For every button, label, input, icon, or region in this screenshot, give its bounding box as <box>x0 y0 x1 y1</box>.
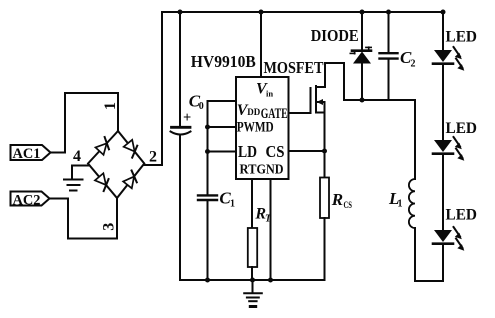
svg-text:1: 1 <box>230 199 235 210</box>
svg-text:AC2: AC2 <box>13 192 41 208</box>
svg-text:PWMD: PWMD <box>237 120 274 136</box>
VIN rail (top) <box>162 11 443 13</box>
MOSFET Q1 <box>264 58 326 151</box>
node dot rail/C0 <box>178 10 183 15</box>
ground bus (bottom) <box>180 279 325 281</box>
bridge diode D1 (left-top edge) <box>95 137 113 155</box>
wire Vin riser <box>260 12 262 77</box>
wire bridge pin 4 to ground <box>72 166 88 179</box>
svg-text:CS: CS <box>266 142 285 161</box>
svg-text:AC1: AC1 <box>13 146 41 162</box>
wire C1 branch vertical <box>207 101 209 195</box>
svg-text:RT: RT <box>240 163 258 178</box>
node dot CS/source/RCS <box>322 149 327 154</box>
svg-text:2: 2 <box>149 149 157 166</box>
svg-text:LED: LED <box>446 29 478 46</box>
node dot bus/RT <box>250 278 255 283</box>
svg-text:LED: LED <box>446 207 478 224</box>
capacitor C2 <box>380 12 416 100</box>
svg-text:GND: GND <box>257 163 284 178</box>
wire PWMD pin <box>208 126 237 128</box>
capacitor C1 <box>198 189 235 281</box>
svg-text:DD: DD <box>247 107 260 117</box>
gate bar <box>310 88 312 113</box>
svg-text:in: in <box>266 89 273 99</box>
bridge diode D3 (left-bottom edge) <box>95 173 113 191</box>
svg-text:LED: LED <box>446 120 478 137</box>
svg-text:+: + <box>183 110 191 126</box>
wire RT pin down <box>251 179 253 228</box>
node dot rail/Vin <box>259 10 264 15</box>
svg-text:MOSFET: MOSFET <box>264 58 325 77</box>
inductor L1 <box>388 100 415 281</box>
svg-text:LD: LD <box>238 142 257 161</box>
wire VDD pin to C1 branch <box>208 100 237 102</box>
drain stub <box>316 63 325 87</box>
channel bar <box>315 86 317 113</box>
node dot rail/LED <box>441 10 446 15</box>
LED 1 <box>433 29 477 71</box>
node dot bus/C1 <box>205 278 210 283</box>
wire drain to switch line <box>325 63 344 100</box>
freewheel diode D5 (schottky) <box>311 12 372 100</box>
node dot rail/D5 <box>360 10 365 15</box>
LED 3 <box>433 207 477 251</box>
svg-text:R: R <box>331 190 343 209</box>
wire GATE pin to MOSFET <box>289 112 311 114</box>
svg-text:3: 3 <box>101 223 118 231</box>
body arrow line <box>318 101 325 103</box>
svg-text:0: 0 <box>199 101 204 112</box>
wire AC1 to bridge pin 1 <box>50 93 118 153</box>
wire bridge pin 2 to VIN rail <box>144 12 162 165</box>
IC U1 HV9910B box <box>236 77 289 179</box>
bridge rectifier diamond wires <box>88 131 144 198</box>
source stub <box>316 112 325 114</box>
wire AC2 to bridge pin 3 <box>50 198 118 239</box>
capacitor C0 (electrolytic) <box>171 12 204 280</box>
LED 2 <box>433 120 477 161</box>
switch node line <box>344 99 415 101</box>
LED string wire segments <box>442 12 444 50</box>
wire GND pin down <box>270 179 272 280</box>
bridge diode D2 (top-right edge) <box>123 140 141 158</box>
source drop <box>324 102 326 151</box>
bridge diode D4 (bottom-right edge) <box>123 170 141 188</box>
svg-text:CS: CS <box>344 201 353 211</box>
resistor RCS <box>320 151 352 280</box>
wire L1 bottom to LED string bottom <box>415 280 443 282</box>
wire LD pin <box>208 151 237 153</box>
node dot rail/C2 <box>386 10 391 15</box>
svg-text:DIODE: DIODE <box>311 26 359 45</box>
node dot switch/diode <box>360 98 365 103</box>
svg-text:1: 1 <box>102 102 119 110</box>
resistor RT <box>248 206 272 281</box>
svg-text:2: 2 <box>411 59 416 70</box>
node dot LD junction <box>205 149 210 154</box>
svg-text:1: 1 <box>398 199 403 210</box>
AC1 input label <box>11 145 51 162</box>
ground at bridge pin 4 <box>64 180 83 191</box>
node dot PWMD junction <box>205 125 210 130</box>
main ground symbol <box>244 280 262 307</box>
AC2 input label <box>11 192 50 209</box>
svg-text:HV9910B: HV9910B <box>191 52 256 71</box>
wire CS pin to source node <box>289 150 325 152</box>
node dot bus/GND <box>268 278 273 283</box>
svg-text:4: 4 <box>73 148 81 165</box>
